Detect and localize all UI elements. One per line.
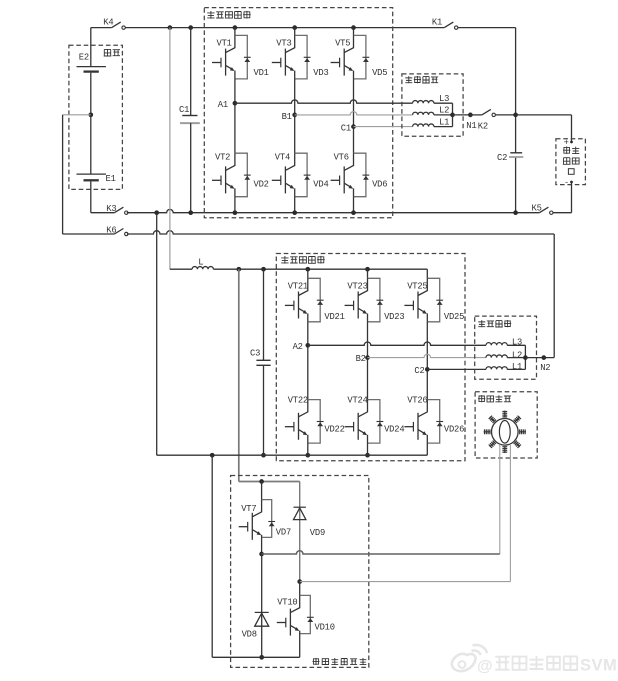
wire leg 3 bottom inverter 1 (351, 197, 356, 215)
wire VT7 emitter to node M1 (259, 537, 264, 556)
svg-text:VD4: VD4 (313, 179, 328, 189)
svg-text:B2: B2 (356, 354, 366, 364)
battery mid tap node (63, 112, 94, 117)
inductor L3 motor 2 (486, 338, 525, 358)
wire leg 1 mid inverter 2 (307, 322, 309, 400)
second motor box 第二电机 (475, 316, 537, 379)
svg-text:VD5: VD5 (372, 68, 387, 78)
wire top positive rail from K4 to K1 corner (91, 27, 516, 29)
wire M1 to excitation winding with hop over VD9 (262, 551, 500, 554)
svg-text:VT5: VT5 (335, 38, 350, 48)
svg-text:K3: K3 (106, 204, 116, 214)
svg-text:VD26: VD26 (444, 424, 464, 434)
svg-text:N1: N1 (466, 121, 476, 131)
svg-text:SVM: SVM (580, 657, 617, 675)
wire to charge port top (516, 115, 573, 144)
svg-text:C2: C2 (497, 153, 507, 163)
wire VT10 emitter to bottom return (299, 634, 301, 658)
svg-text:VD9: VD9 (310, 528, 325, 538)
svg-text:+: + (564, 137, 569, 147)
wire leg 2 mid inverter 2 (367, 322, 369, 400)
node top rail junction leg 2 inverter 1 (292, 25, 297, 30)
svg-text:VT10: VT10 (277, 598, 297, 608)
first motor box 第一电机 (402, 74, 463, 136)
transistor VT3 (272, 28, 311, 79)
wire leg 1 bottom inverter 2 (305, 443, 310, 457)
wire excitation winding lead left (499, 444, 501, 554)
switch K6 (63, 226, 128, 236)
switch K2 (470, 109, 515, 131)
wire leg 2 bottom inverter 1 (292, 197, 297, 215)
node top rail junction leg 2 inverter 2 (365, 267, 370, 272)
node B1 and phase wire to motor 1 L2 (282, 112, 413, 123)
battery cell E1 (77, 115, 116, 213)
node star point motor 2 (523, 355, 528, 360)
svg-text:VT23: VT23 (347, 281, 367, 291)
svg-text:C2: C2 (414, 366, 424, 376)
transistor VT21 (285, 269, 324, 322)
svg-text:VD2: VD2 (254, 179, 269, 189)
switch K1 (432, 17, 458, 29)
svg-text:L: L (198, 257, 203, 267)
node M2 wire to excitation winding (297, 579, 510, 584)
wire charge trunk vertical (513, 28, 518, 215)
transistor VT2 (212, 152, 251, 196)
inductor L dc link (170, 257, 308, 269)
wire leg 3 mid inverter 2 (426, 322, 428, 400)
svg-text:E2: E2 (79, 52, 89, 62)
svg-text:VD21: VD21 (324, 312, 344, 322)
svg-text:VT22: VT22 (288, 395, 308, 405)
svg-text:VD24: VD24 (384, 424, 404, 434)
svg-text:L1: L1 (512, 362, 522, 372)
svg-text:N2: N2 (540, 363, 550, 373)
node A1 and phase wire to motor 1 L3 (218, 100, 413, 110)
svg-text:K4: K4 (103, 17, 113, 27)
svg-text:VD7: VD7 (276, 527, 291, 537)
inductor L2 motor 1 (413, 106, 453, 116)
node top rail junction leg 1 inverter 2 (305, 267, 310, 272)
diode VD9 (294, 482, 326, 582)
svg-text:K1: K1 (432, 17, 442, 27)
transistor VT1 (212, 28, 251, 79)
wire leg 2 bottom inverter 2 (365, 443, 370, 457)
wire leg 3 mid inverter 1 (353, 79, 355, 153)
inductor L1 motor 2 (486, 358, 525, 373)
svg-text:VT24: VT24 (347, 395, 367, 405)
charge port box 充放电端口 (556, 137, 586, 187)
transistor VT23 (345, 269, 384, 322)
wire second inverter positive rail (308, 268, 428, 270)
node A2 and phase wire to motor 2 L3 (293, 342, 486, 352)
svg-text:L3: L3 (439, 94, 449, 104)
transistor VT6 (331, 152, 370, 196)
wire negative feed to second inverter (154, 210, 159, 455)
wire gray positive feed down to inductor L (168, 25, 173, 269)
capacitor C1 (179, 25, 200, 215)
svg-text:A2: A2 (293, 342, 303, 352)
inductor L1 motor 1 (413, 115, 453, 127)
svg-text:L3: L3 (512, 338, 522, 348)
wire charge port bottom to K5 (570, 181, 573, 213)
transistor VT7 (239, 482, 275, 540)
wire leg 2 mid inverter 1 (294, 79, 296, 153)
battery cell E2 (77, 28, 106, 115)
svg-text:K6: K6 (106, 226, 116, 236)
capacitor C3 (250, 267, 271, 458)
node top rail junction leg 1 inverter 1 (233, 25, 238, 30)
svg-text:VT1: VT1 (217, 38, 232, 48)
transistor VT4 (272, 152, 311, 196)
first inverter box 第一逆变器 (204, 8, 392, 218)
excitation control box 励磁控制电路 (231, 476, 369, 668)
watermark text (477, 656, 617, 675)
node star point motor 1 (450, 113, 455, 118)
switch K5 (532, 204, 554, 215)
svg-text:VT21: VT21 (288, 281, 308, 291)
watermark weibo logo (452, 645, 487, 671)
svg-text:VT25: VT25 (407, 281, 427, 291)
node N1 (453, 113, 477, 131)
svg-text:VT26: VT26 (407, 395, 427, 405)
wire leg 1 mid inverter 1 (234, 79, 236, 153)
svg-text:C3: C3 (250, 348, 260, 358)
svg-text:B1: B1 (282, 112, 292, 122)
svg-text:VT4: VT4 (275, 152, 290, 162)
transistor VT5 (331, 28, 370, 79)
svg-text:E1: E1 (106, 174, 116, 184)
node top rail junction leg 3 inverter 1 (351, 25, 356, 30)
svg-text:VD23: VD23 (384, 312, 404, 322)
battery box 电池 (69, 45, 123, 189)
svg-text:VT3: VT3 (276, 38, 291, 48)
capacitor C2 (497, 153, 523, 163)
excitation winding rotor symbol (484, 411, 526, 453)
diode VD8 (242, 554, 269, 660)
svg-text:VD8: VD8 (242, 630, 257, 640)
wire bottom return to negative rail (210, 453, 300, 657)
svg-text:VT2: VT2 (215, 152, 230, 162)
svg-text:A1: A1 (218, 100, 228, 110)
node B2 and phase wire to motor 2 L2 (356, 354, 486, 364)
svg-text:K5: K5 (532, 204, 542, 214)
svg-text:C1: C1 (341, 124, 351, 134)
wire battery mid tap down to K6 (62, 115, 64, 234)
switch K4 (103, 17, 125, 29)
wire leg 3 bottom inverter 2 (426, 443, 428, 455)
svg-text:VT6: VT6 (334, 152, 349, 162)
svg-text:VD25: VD25 (444, 312, 464, 322)
node C2 phase and wire to motor 2 L1 (414, 366, 486, 376)
wire bottom negative rail with hop over gray feed (127, 209, 572, 212)
svg-text:L2: L2 (439, 106, 449, 116)
wire feed to excitation circuit (236, 267, 299, 482)
node N2 (525, 355, 554, 373)
transistor VT24 (345, 395, 384, 443)
transistor VT22 (285, 395, 324, 443)
svg-text:K2: K2 (478, 121, 488, 131)
wire leg 1 bottom inverter 1 (233, 197, 238, 215)
second inverter box 第二逆变器 (276, 254, 465, 461)
inductor L2 motor 2 (486, 350, 525, 360)
wire excitation winding lead right (509, 444, 511, 582)
svg-text:VT7: VT7 (241, 504, 256, 514)
wire K6 mid rail with hops, corner down to N2 (127, 231, 554, 358)
svg-text:L1: L1 (439, 117, 449, 127)
svg-text:VD10: VD10 (315, 623, 335, 633)
transistor VT26 (404, 395, 443, 443)
svg-text:VD1: VD1 (254, 68, 269, 78)
svg-text:VD6: VD6 (372, 179, 387, 189)
switch K3 (106, 204, 128, 214)
svg-text:C1: C1 (179, 105, 189, 115)
wire excitation entry node (259, 479, 264, 484)
svg-text:@: @ (477, 658, 493, 675)
wire battery negative to K3 (91, 212, 115, 214)
inductor L3 motor 1 (413, 94, 453, 115)
transistor VT10 (277, 582, 314, 636)
wire second inverter negative rail (157, 454, 428, 456)
excitation winding box 励磁绕组 (475, 392, 537, 458)
svg-text:L2: L2 (512, 350, 522, 360)
node C1 phase and wire to motor 1 L1 (341, 124, 413, 134)
svg-text:VD22: VD22 (324, 424, 344, 434)
svg-text:-: - (564, 177, 569, 187)
transistor VT25 (404, 269, 443, 322)
svg-text:VD3: VD3 (313, 68, 328, 78)
